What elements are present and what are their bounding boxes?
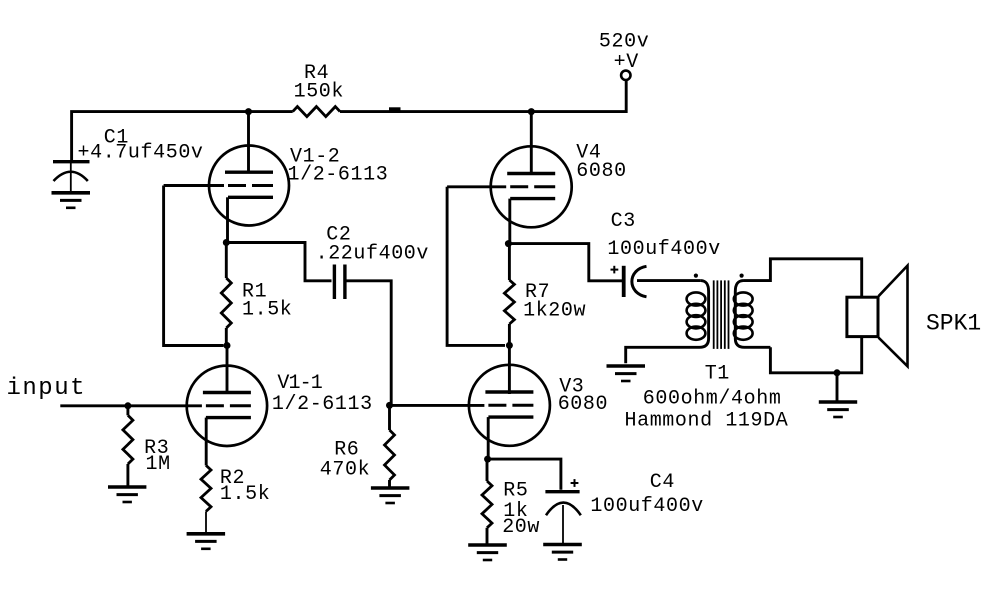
svg-text:C4: C4	[650, 471, 675, 494]
svg-text:SPK1: SPK1	[926, 311, 981, 337]
svg-text:1.5k: 1.5k	[242, 299, 292, 322]
svg-text:100uf400v: 100uf400v	[590, 495, 703, 518]
svg-text:T1: T1	[705, 363, 730, 386]
svg-text:Hammond 119DA: Hammond 119DA	[625, 410, 789, 433]
svg-text:V1-1: V1-1	[277, 372, 322, 395]
svg-text:600ohm/4ohm: 600ohm/4ohm	[643, 388, 782, 411]
svg-text:100uf400v: 100uf400v	[607, 238, 720, 261]
svg-text:150k: 150k	[294, 81, 344, 104]
svg-text:6080: 6080	[576, 160, 626, 183]
svg-text:1/2-6113: 1/2-6113	[288, 164, 389, 187]
svg-text:C3: C3	[611, 210, 636, 233]
svg-text:+V: +V	[614, 51, 639, 74]
svg-text:1k20w: 1k20w	[523, 300, 586, 323]
svg-text:1/2-6113: 1/2-6113	[272, 393, 373, 416]
svg-text:1.5k: 1.5k	[220, 483, 270, 506]
svg-text:.22uf400v: .22uf400v	[316, 243, 429, 266]
svg-text:470k: 470k	[320, 459, 370, 482]
svg-text:1M: 1M	[146, 453, 171, 476]
svg-text:input: input	[7, 375, 87, 402]
svg-text:20w: 20w	[502, 516, 540, 539]
svg-text:6080: 6080	[558, 393, 608, 416]
svg-text:+4.7uf450v: +4.7uf450v	[78, 142, 204, 165]
